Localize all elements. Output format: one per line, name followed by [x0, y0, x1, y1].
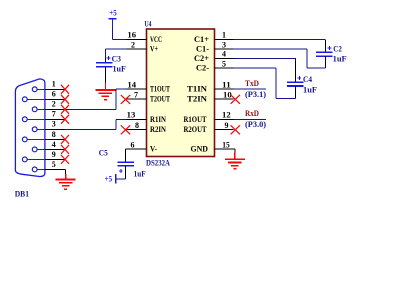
- svg-text:V-: V-: [150, 144, 157, 154]
- svg-text:4: 4: [52, 140, 56, 149]
- svg-text:C3: C3: [112, 54, 121, 63]
- svg-text:R1OUT: R1OUT: [184, 114, 207, 124]
- svg-text:C2-: C2-: [196, 63, 209, 73]
- svg-text:2: 2: [52, 100, 56, 109]
- svg-text:(P3.0): (P3.0): [245, 120, 266, 129]
- svg-text:1uF: 1uF: [303, 86, 317, 95]
- svg-text:DS232A: DS232A: [146, 157, 171, 167]
- svg-text:T2IN: T2IN: [187, 94, 208, 104]
- svg-text:VCC: VCC: [150, 34, 162, 44]
- svg-text:5: 5: [52, 160, 56, 169]
- svg-text:GND: GND: [191, 144, 209, 154]
- svg-text:11: 11: [222, 80, 231, 89]
- svg-text:1: 1: [52, 80, 56, 89]
- svg-text:T1IN: T1IN: [187, 84, 208, 94]
- svg-text:DB1: DB1: [15, 188, 29, 198]
- svg-text:C4: C4: [303, 75, 312, 84]
- svg-text:3: 3: [52, 120, 56, 129]
- svg-text:7: 7: [134, 90, 138, 99]
- svg-text:(P3.1): (P3.1): [245, 90, 266, 99]
- svg-text:6: 6: [52, 90, 56, 99]
- svg-text:4: 4: [222, 50, 226, 59]
- svg-text:T2OUT: T2OUT: [150, 94, 170, 104]
- svg-text:1uF: 1uF: [113, 65, 127, 74]
- svg-text:TxD: TxD: [245, 78, 259, 88]
- svg-text:8: 8: [135, 121, 139, 130]
- svg-text:C5: C5: [99, 149, 108, 158]
- svg-text:C2+: C2+: [194, 53, 209, 63]
- svg-text:15: 15: [222, 140, 230, 149]
- svg-text:1uF: 1uF: [134, 170, 146, 179]
- svg-text:7: 7: [52, 110, 56, 119]
- svg-text:R1IN: R1IN: [150, 114, 167, 124]
- svg-text:9: 9: [225, 121, 229, 130]
- svg-text:C1+: C1+: [194, 34, 209, 44]
- svg-text:9: 9: [52, 150, 56, 159]
- svg-text:+5: +5: [109, 9, 116, 18]
- svg-text:12: 12: [222, 111, 231, 120]
- svg-text:13: 13: [127, 111, 136, 120]
- svg-text:1: 1: [222, 31, 226, 40]
- svg-text:14: 14: [127, 80, 136, 89]
- svg-text:1uF: 1uF: [333, 55, 347, 64]
- svg-text:C2: C2: [333, 45, 342, 54]
- svg-text:RxD: RxD: [245, 108, 259, 118]
- svg-text:5: 5: [222, 59, 226, 68]
- svg-text:3: 3: [222, 40, 226, 49]
- svg-text:2: 2: [131, 40, 135, 49]
- svg-text:10: 10: [223, 90, 232, 99]
- svg-text:V+: V+: [150, 44, 158, 54]
- svg-text:6: 6: [131, 140, 135, 149]
- svg-text:+5: +5: [105, 175, 113, 184]
- svg-text:U4: U4: [145, 19, 153, 29]
- svg-text:R2OUT: R2OUT: [184, 124, 207, 134]
- svg-text:16: 16: [127, 31, 136, 40]
- svg-text:T1OUT: T1OUT: [150, 84, 170, 94]
- svg-text:8: 8: [52, 130, 56, 139]
- svg-text:R2IN: R2IN: [150, 124, 167, 134]
